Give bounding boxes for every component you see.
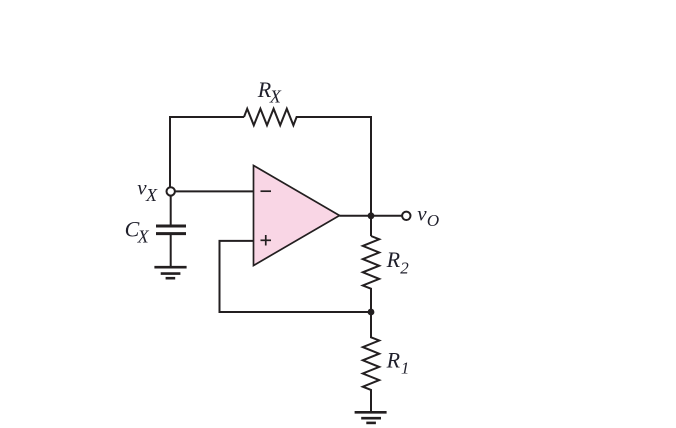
- svg-text:O: O: [427, 211, 439, 230]
- svg-text:2: 2: [400, 258, 409, 277]
- svg-text:X: X: [269, 86, 282, 106]
- svg-text:1: 1: [401, 359, 410, 378]
- svg-text:X: X: [145, 185, 158, 205]
- svg-text:R: R: [386, 348, 401, 373]
- svg-text:X: X: [137, 227, 150, 247]
- svg-text:R: R: [386, 247, 401, 272]
- svg-text:v: v: [417, 202, 427, 226]
